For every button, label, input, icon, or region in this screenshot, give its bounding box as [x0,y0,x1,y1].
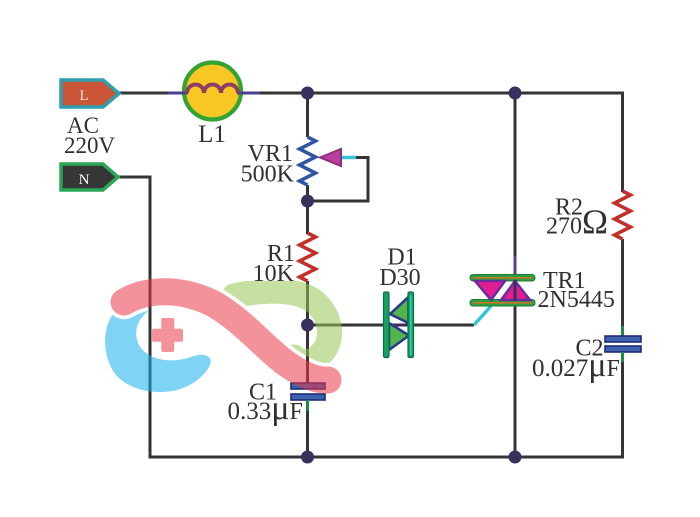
wire left side down [149,176,152,459]
wire node to D1 [308,324,385,327]
wire R1 to C1 [306,281,309,383]
svg-text:L: L [79,88,88,104]
terminal flag N [61,164,118,190]
terminal flag L [61,80,119,107]
svg-text:220V: 220V [64,133,116,158]
node at triac top [509,87,522,100]
node at lamp output [301,87,314,100]
potentiometer VR1 [300,137,357,185]
wire node to VR1 [306,93,309,137]
resistor R1 [300,233,316,281]
wire C1 to bottom rail [306,400,309,457]
wire top from L flag to lamp [119,92,186,95]
triac TR1 [470,275,535,326]
capacitor C1 [291,383,325,411]
wire N flag to corner [118,176,152,179]
lamp L1 [168,63,260,120]
svg-text:D30: D30 [379,265,420,291]
node VR1 bottom [301,195,314,208]
watermark cross [152,318,183,352]
watermark green leaf [234,291,330,362]
wire VR1 to R1 [306,185,309,234]
resistor R2 [615,191,631,239]
node R1 bottom junction [301,319,314,332]
wire R2 to C2 [621,239,624,336]
wire bottom rail [150,456,624,459]
watermark pink ribbon [124,292,328,380]
watermark blue crescent [105,295,211,392]
svg-text:L1: L1 [198,121,226,148]
wire D1 to triac gate [413,324,474,327]
diac D1 [384,292,414,358]
wire purple tint above triac [514,256,517,276]
node bottom right [509,451,522,464]
svg-text:N: N [79,172,90,188]
wire top from lamp to right corner [239,92,623,95]
svg-text:2N5445: 2N5445 [538,287,615,313]
wire VR1 wiper loop [308,158,369,202]
wire triac MT1 to bottom rail [514,305,517,457]
node bottom left [301,451,314,464]
capacitor C2 [605,326,641,362]
wire top node to triac MT2 [514,93,517,258]
wire right side down to R2 [621,92,624,193]
svg-text:500K: 500K [241,162,295,188]
wire C2 to bottom right corner [621,352,624,459]
